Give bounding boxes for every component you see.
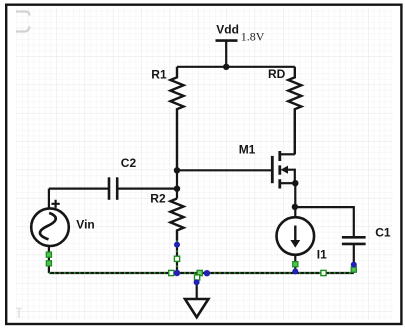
voltage source Vin xyxy=(31,189,69,273)
svg-text:C2: C2 xyxy=(121,156,137,170)
terminal square rail left of R2 xyxy=(169,270,174,275)
svg-text:RD: RD xyxy=(268,67,286,81)
gate bar xyxy=(271,156,274,183)
Vdd power symbol xyxy=(216,41,238,67)
resistor RD xyxy=(288,67,301,155)
junction blue dot I1 bottom xyxy=(292,268,298,274)
arrow head I1 xyxy=(290,240,300,248)
decorative corner mark lower xyxy=(16,27,30,32)
node gate junction upper xyxy=(174,167,180,173)
terminal square at ground top xyxy=(197,270,202,275)
svg-text:I1: I1 xyxy=(317,247,327,261)
body stub xyxy=(286,170,295,184)
node C1 branch junction xyxy=(292,204,298,210)
svg-text:C1: C1 xyxy=(375,226,391,240)
wire drain up xyxy=(294,109,296,154)
terminal square mid rail xyxy=(321,270,326,275)
transistor M1 nmos xyxy=(272,151,295,189)
channel segments xyxy=(278,151,281,189)
wire ground rail xyxy=(49,272,354,274)
svg-text:Vin: Vin xyxy=(76,218,94,232)
terminal square Vin lower xyxy=(46,261,51,266)
current source I1 xyxy=(277,217,315,255)
resistor R2 xyxy=(170,199,183,241)
wire ground stem xyxy=(196,273,198,299)
decorative corner mark top xyxy=(16,12,30,16)
svg-text:Vdd: Vdd xyxy=(216,23,239,37)
stem top xyxy=(48,189,50,209)
sine wave xyxy=(40,213,56,240)
node source junction xyxy=(292,180,298,186)
junction blue dot R2 wire top xyxy=(174,242,180,248)
decorative bottom-left mark xyxy=(17,309,22,319)
wire Vin to C2 xyxy=(49,188,109,190)
terminal square Vin upper xyxy=(46,252,51,257)
drain stub xyxy=(280,153,295,155)
terminal square on R2 wire xyxy=(174,256,179,261)
stem bottom xyxy=(48,246,50,273)
wire gate horizontal xyxy=(177,169,272,171)
body arrow head xyxy=(281,166,288,174)
svg-text:1.8V: 1.8V xyxy=(241,30,265,44)
terminal square below ground top xyxy=(195,275,200,280)
capacitor C2 xyxy=(109,177,117,200)
wire top rail xyxy=(177,66,295,68)
wire R2 to rail (highlighted) xyxy=(176,241,178,274)
wire branch to C1 xyxy=(295,207,354,237)
terminal square I1 bottom xyxy=(293,262,298,267)
resistor R1 xyxy=(170,67,183,168)
junction blue dot C1 bottom xyxy=(351,262,357,268)
wire I1 bottom xyxy=(294,255,296,273)
node gate junction lower xyxy=(174,186,180,192)
junction blue dot ground stem xyxy=(194,279,200,285)
svg-text:M1: M1 xyxy=(239,142,256,156)
svg-text:R1: R1 xyxy=(151,67,167,81)
junction blue dot rail right of ground xyxy=(204,270,210,276)
ground symbol xyxy=(185,299,208,317)
node Vdd junction xyxy=(223,64,229,70)
wire C1 bottom xyxy=(353,244,355,273)
wire gate node vertical xyxy=(176,168,178,199)
svg-text:R2: R2 xyxy=(150,192,166,206)
wire C2 to gate node xyxy=(117,188,177,190)
terminal square C1 bottom xyxy=(351,267,356,272)
capacitor C1 xyxy=(342,237,366,244)
plus sign xyxy=(52,200,60,208)
source stub xyxy=(280,182,296,184)
junction blue dot R2 rail xyxy=(174,270,180,276)
wire source down xyxy=(294,183,296,217)
